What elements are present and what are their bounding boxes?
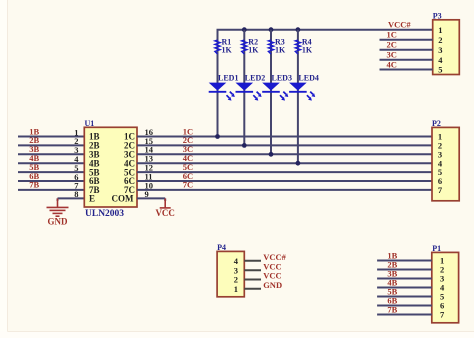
wire net 2C from U1 pin 15 to P2 pin 2 xyxy=(137,144,432,146)
wire net 3B to P1 pin 3 xyxy=(377,278,432,280)
wire net 6B to U1 pin 6 xyxy=(18,180,84,182)
svg-text:P3: P3 xyxy=(433,11,442,20)
wire net 1C from U1 pin 16 to P2 pin 1 xyxy=(137,136,432,138)
wire net 4B to U1 pin 4 xyxy=(18,162,84,164)
wire U1 pin 9 (COM) to VCC xyxy=(137,197,165,199)
connector P2 body xyxy=(432,127,459,200)
wire LED2 column xyxy=(243,30,245,146)
wire P4 pin 3 (VCC) xyxy=(244,269,261,271)
junction xyxy=(242,143,247,148)
wire P4 pin 2 (VCC) xyxy=(244,279,261,281)
svg-text:E: E xyxy=(89,194,95,204)
svg-text:4C: 4C xyxy=(387,59,397,69)
wire net 5B to P1 pin 5 xyxy=(377,296,432,298)
wire LED3 column xyxy=(270,30,272,155)
wire net 6C from U1 pin 11 to P2 pin 6 xyxy=(137,180,432,182)
svg-text:LED1: LED1 xyxy=(218,74,238,83)
svg-text:1: 1 xyxy=(234,284,238,294)
wire net 2B to P1 pin 2 xyxy=(377,269,432,271)
resistor R1 1K xyxy=(215,40,220,54)
wire net 4C to P3 pin 5 xyxy=(380,69,433,71)
svg-text:7B: 7B xyxy=(29,180,39,190)
resistor R3 1K xyxy=(268,40,273,54)
svg-text:U1: U1 xyxy=(85,119,95,128)
junction xyxy=(296,161,301,166)
svg-text:7: 7 xyxy=(438,185,443,195)
svg-text:3C: 3C xyxy=(387,50,397,60)
wire corner at VCC xyxy=(164,198,166,201)
svg-text:8: 8 xyxy=(74,189,78,199)
wire net 5C from U1 pin 12 to P2 pin 5 xyxy=(137,171,432,173)
svg-text:9: 9 xyxy=(145,189,149,199)
wire LED4 column xyxy=(297,30,299,164)
svg-text:GND: GND xyxy=(263,280,282,290)
svg-text:1C: 1C xyxy=(387,30,397,40)
svg-text:P4: P4 xyxy=(217,243,226,252)
wire net 4C from U1 pin 13 to P2 pin 4 xyxy=(137,162,432,164)
connector P1 body xyxy=(432,252,459,322)
wire net 1C to P3 pin 2 xyxy=(380,39,433,41)
sheet border xyxy=(0,0,7,338)
wire net 4B to P1 pin 4 xyxy=(377,287,432,289)
LED3 xyxy=(262,83,288,101)
svg-text:P1: P1 xyxy=(432,244,441,253)
junction xyxy=(269,152,274,157)
wire net 5B to U1 pin 5 xyxy=(18,171,84,173)
wire net 2C to P3 pin 3 xyxy=(380,49,433,51)
power VCC xyxy=(160,198,171,208)
svg-text:ULN2003: ULN2003 xyxy=(85,209,124,219)
op-amp U1 ULN2003 body xyxy=(84,127,137,207)
svg-text:7B: 7B xyxy=(387,304,397,314)
ground GND xyxy=(47,198,69,216)
connector P3 body xyxy=(433,20,460,75)
svg-text:VCC: VCC xyxy=(155,208,175,218)
svg-text:1K: 1K xyxy=(302,46,313,55)
svg-text:3: 3 xyxy=(438,45,442,55)
wire net 7C from U1 pin 10 to P2 pin 7 xyxy=(137,189,432,191)
wire net 3C from U1 pin 14 to P2 pin 3 xyxy=(137,153,432,155)
svg-text:4: 4 xyxy=(438,55,443,65)
LED1 xyxy=(209,83,235,101)
svg-text:LED4: LED4 xyxy=(298,74,318,83)
wire net 1B to P1 pin 1 xyxy=(377,260,432,262)
svg-text:1: 1 xyxy=(438,25,442,35)
junction xyxy=(269,27,274,32)
wire corner at GND xyxy=(57,198,59,201)
wire net 7B to U1 pin 7 xyxy=(18,189,84,191)
svg-text:1K: 1K xyxy=(248,46,259,55)
svg-text:LED2: LED2 xyxy=(245,74,265,83)
LED4 xyxy=(289,83,315,101)
wire net 1B to U1 pin 1 xyxy=(18,136,84,138)
svg-text:LED3: LED3 xyxy=(272,74,292,83)
svg-text:2: 2 xyxy=(438,35,442,45)
resistor R4 1K xyxy=(295,40,300,54)
svg-text:COM: COM xyxy=(112,194,135,204)
svg-text:5: 5 xyxy=(438,65,442,75)
wire U1 pin 8 (E) to GND xyxy=(58,197,85,199)
junction xyxy=(215,134,220,139)
svg-text:7C: 7C xyxy=(183,180,193,190)
svg-text:VCC#: VCC# xyxy=(388,19,411,29)
wire P4 pin 1 (GND) xyxy=(244,288,261,290)
svg-text:1K: 1K xyxy=(222,46,233,55)
wire VCC# bus xyxy=(218,30,433,137)
wire net 3C to P3 pin 4 xyxy=(380,59,433,61)
wire net 6B to P1 pin 6 xyxy=(377,305,432,307)
wire net 3B to U1 pin 3 xyxy=(18,153,84,155)
junction xyxy=(242,27,247,32)
wire P4 pin 4 (VCC#) xyxy=(244,260,261,262)
wire net 7B to P1 pin 7 xyxy=(377,314,432,316)
svg-text:GND: GND xyxy=(48,217,69,227)
connector P4 body xyxy=(217,251,244,296)
svg-text:2C: 2C xyxy=(387,40,397,50)
LED2 xyxy=(236,83,262,101)
junction xyxy=(296,27,301,32)
resistor R2 1K xyxy=(242,40,247,54)
wire net 2B to U1 pin 2 xyxy=(18,144,84,146)
svg-text:1K: 1K xyxy=(275,46,286,55)
svg-text:P2: P2 xyxy=(432,119,441,128)
